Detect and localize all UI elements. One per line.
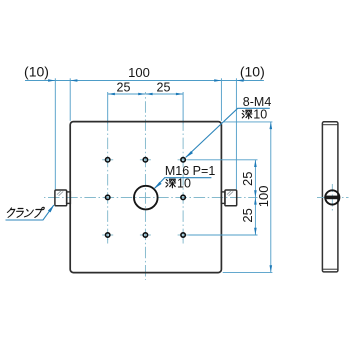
arrow at x=221.4 pointing right (214, 79, 221, 82)
dimension line 25/25 right (x=255.4) (254, 160, 256, 235)
leader M16: line (154, 178, 211, 189)
plate outline (70, 122, 221, 273)
dimension line 100 right (x=271.9) (270, 122, 272, 272)
M4 hole 8 (181, 233, 185, 237)
tick below hole 8 (182, 239, 184, 244)
arrow at y=159.8 pointing up (254, 160, 257, 167)
arrow at x=55.3 pointing right (48, 79, 55, 82)
clamp screw right: slot marks (227, 191, 231, 195)
svg-text:25: 25 (240, 172, 255, 186)
M16 center hole (134, 186, 158, 210)
centerline column 3 (x=183.1) (182, 124, 184, 243)
label fuka10 (depth) 2 (166, 176, 191, 190)
arrow pair at x=145.4 (138, 93, 145, 96)
side view chamfer line bottom (322, 268, 338, 270)
extension line column 1 above plate (107, 92, 109, 124)
extension line column 3 above plate (182, 92, 184, 124)
arrow at x=236.4 pointing left (236, 79, 243, 82)
hole cross ticks row3 (102, 234, 113, 236)
clamp screw right: head (225, 190, 237, 206)
extension line hole row3 right (y=235) (188, 234, 257, 236)
extension line plate left edge (x=70.2) (69, 78, 71, 121)
arrow at y=272.4 pointing down (269, 265, 272, 272)
dimension line 25/25 (y=94) (108, 93, 183, 95)
arrow at x=70.2 pointing left (70, 79, 77, 82)
M4 hole 1 (106, 158, 110, 162)
M4 hole 2 (143, 158, 147, 162)
svg-text:(10): (10) (240, 64, 265, 80)
svg-text:(10): (10) (24, 63, 49, 79)
extension line plate top right (y=121.9) (223, 121, 273, 123)
extension line hole row1 right (y=159.8) (188, 159, 257, 161)
side view centerline vertical (331, 184, 333, 212)
label kurampu (clamp) katakana (6, 207, 44, 217)
M4 hole 3 (181, 158, 185, 162)
side view plate outline (322, 122, 338, 272)
svg-text:25: 25 (117, 80, 131, 94)
svg-text:10: 10 (177, 176, 191, 190)
M4 hole 6 (105, 233, 109, 237)
leader 8-M4: arrow (185, 151, 193, 158)
M4 hole 7 (143, 233, 147, 237)
centerline middle row (y=197.4) (44, 196, 258, 198)
clamp screw left: head (55, 190, 67, 206)
leader M16: arrow (154, 182, 162, 189)
side view chamfer line top (322, 124, 338, 126)
centerline column 1 (x=107.7) (107, 123, 109, 242)
clamp screw left: shaft (67, 192, 71, 204)
arrow pair at y=197.4 (254, 190, 257, 197)
extension line right of clamp (x=236.4) (235, 78, 237, 189)
hole cross ticks row1 (102, 159, 113, 161)
arrow at y=121.9 pointing up (270, 122, 273, 129)
svg-text:100: 100 (256, 186, 271, 208)
side view clamp screw circle (325, 190, 339, 204)
centerline column 2 center (x=145.4) (144, 92, 146, 280)
extension line plate bottom right (y=272.4) (223, 271, 273, 273)
tick below hole 6 (107, 239, 109, 244)
svg-text:25: 25 (240, 208, 255, 222)
svg-text:10: 10 (253, 107, 267, 121)
M4 hole 4 (105, 195, 109, 199)
svg-text:25: 25 (157, 80, 171, 94)
extension line left of clamp (x=55.3) (54, 78, 56, 189)
dimension line top (y=80.5) (25, 79, 264, 81)
leader kurampu: arrow (48, 205, 54, 213)
arrow at y=235 pointing down (254, 228, 257, 235)
extension line plate right edge (x=221.4) (220, 78, 222, 121)
clamp screw right: shaft (221, 192, 225, 204)
M4 hole 5 (181, 195, 185, 199)
clamp screw left: slot marks (57, 191, 61, 195)
leader kurampu: line (5, 205, 53, 220)
arrow at x=183.1 pointing right (176, 93, 183, 96)
leader 8-M4: line (186, 108, 270, 157)
side view screw slot (326, 196, 339, 200)
label fuka10 (depth) (242, 107, 267, 121)
arrow at x=107.7 pointing left (108, 93, 115, 96)
side view centerline horizontal (317, 196, 349, 198)
svg-text:100: 100 (128, 65, 150, 80)
